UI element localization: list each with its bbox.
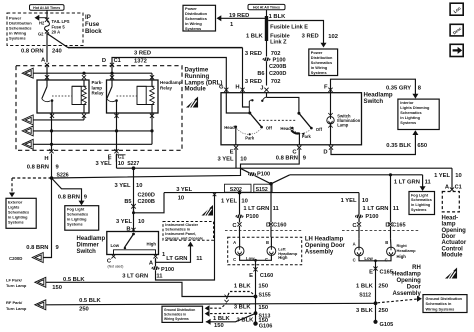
svg-text:P100: P100 xyxy=(273,58,286,64)
label box: Hot At All Times (left) xyxy=(30,5,65,11)
svg-text:P100: P100 xyxy=(365,214,378,220)
svg-text:P100: P100 xyxy=(246,214,259,220)
svg-text:G2: G2 xyxy=(38,31,44,36)
svg-text:3 BLK: 3 BLK xyxy=(356,308,374,314)
svg-text:C: C xyxy=(385,257,388,262)
headlamp relay switch output xyxy=(116,101,118,113)
svg-text:D: D xyxy=(323,149,327,155)
svg-text:High: High xyxy=(397,254,407,259)
ESD warning symbol (DRL) xyxy=(186,97,198,108)
svg-text:E: E xyxy=(249,273,253,279)
svg-text:11: 11 xyxy=(393,206,400,212)
svg-text:1372: 1372 xyxy=(134,58,147,64)
connector P100 (RH C) xyxy=(355,215,363,219)
headlamp relay switch contact xyxy=(115,99,118,102)
wire: diagonal from H1 through P100 to S152 xyxy=(240,168,271,184)
svg-text:3 RED: 3 RED xyxy=(302,34,319,40)
reference box: Ground Distribution Schematics in Wiring Systems (left) xyxy=(162,306,203,322)
wire: right contact down to pin C xyxy=(298,133,300,145)
reference box: Interior Lights Dimming Schematics in Lighting Systems xyxy=(398,99,439,129)
internal bus t3 xyxy=(34,130,153,132)
svg-text:C1: C1 xyxy=(118,155,125,161)
svg-text:650: 650 xyxy=(417,143,427,149)
wire: 3 LT GRN 11 from dimmer A down through P100 and right to S152 riser xyxy=(155,258,157,266)
junction: B riser / H3 branch xyxy=(132,211,135,214)
right Head contact xyxy=(291,127,294,130)
svg-text:3 YEL: 3 YEL xyxy=(116,219,132,225)
wire: RH C pin into assembly xyxy=(358,226,360,239)
svg-text:(Not used): (Not used) xyxy=(108,264,124,268)
wire: 0.5 BLK 150 from LF park lamp to S155 xyxy=(46,282,256,296)
pin C mark (dimmer) xyxy=(111,254,115,258)
svg-text:1 BLK: 1 BLK xyxy=(356,284,374,290)
wire: RH D pin into assembly xyxy=(390,226,392,239)
svg-text:1 BLK: 1 BLK xyxy=(213,316,231,322)
splice S226 xyxy=(50,176,54,180)
svg-text:A: A xyxy=(353,241,356,246)
instrument cluster dashed reference box xyxy=(163,222,214,241)
wire: 0.8 BRN 9 from DRL H down to S226 xyxy=(51,154,53,179)
pin A mark on DRL module edge xyxy=(45,63,49,67)
svg-text:C1: C1 xyxy=(114,58,121,64)
left Head contact xyxy=(235,126,238,129)
pin E mark (LH) xyxy=(253,267,257,271)
wire: coil risers to bus t1 xyxy=(151,73,153,80)
wire: D feed down to headlamp relay xyxy=(111,67,113,81)
internal bus t1 from connector arrow to relay coils and D wire xyxy=(34,72,153,74)
svg-text:3 RED: 3 RED xyxy=(134,51,151,57)
park relay mechanical link (dashed) xyxy=(52,95,72,97)
svg-text:3 RED: 3 RED xyxy=(245,51,262,57)
park relay pin mark top-left xyxy=(45,75,49,79)
park relay pin mark bottom-left xyxy=(50,114,54,118)
svg-text:G: G xyxy=(219,84,224,90)
dashed wire: S226 to exterior lights schematics xyxy=(12,177,52,179)
wire: RH common down to E C165 xyxy=(375,261,377,271)
svg-text:1 BLK: 1 BLK xyxy=(269,14,287,20)
pin H2 mark xyxy=(45,18,49,22)
svg-text:C200B: C200B xyxy=(269,64,286,70)
wire: Head contact down to pin E xyxy=(235,128,237,145)
svg-text:0.35 GRY: 0.35 GRY xyxy=(386,85,411,91)
svg-text:H: H xyxy=(235,84,239,90)
splice S113 xyxy=(254,311,258,315)
junction: park relay coil top on bus xyxy=(82,72,85,75)
svg-text:1 BLK: 1 BLK xyxy=(246,33,264,39)
svg-text:E: E xyxy=(230,149,234,155)
connector P100 (dimmer A) xyxy=(152,266,160,270)
headlamp coil bottom lead down to bus t4 xyxy=(151,105,153,145)
internal bus t4 xyxy=(34,143,153,145)
pin C mark (LH) xyxy=(237,222,241,226)
wire: 1 BLK 250 from RH E to S112 xyxy=(375,271,377,304)
pin H mark xyxy=(240,88,244,92)
svg-text:0.8 ORN: 0.8 ORN xyxy=(21,48,44,54)
pin H mark on DRL bottom edge xyxy=(49,149,53,153)
svg-text:0.8 BRN: 0.8 BRN xyxy=(27,164,49,170)
svg-text:1 LT GRN: 1 LT GRN xyxy=(243,206,269,212)
park coil top lead xyxy=(83,80,85,86)
connector bracket C1 at F xyxy=(116,155,125,162)
svg-text:B6: B6 xyxy=(257,71,264,77)
wire: 3 YEL 10 bus H1 from DRL F across to actuator module A xyxy=(117,167,453,169)
svg-text:J: J xyxy=(260,85,263,91)
svg-text:10: 10 xyxy=(136,183,142,189)
dashed wire: ground distribution to S113 xyxy=(205,311,210,317)
svg-text:Head: Head xyxy=(280,126,291,131)
wire: A feed down to park-lamp relay switch xyxy=(46,67,48,81)
wire: LH C pin into assembly xyxy=(239,226,241,237)
pin E mark xyxy=(234,146,238,150)
LH headlamp opening door assembly dashed outline xyxy=(228,237,302,264)
RH bulb A feed inside box xyxy=(358,239,360,248)
DRL module dashed outline xyxy=(16,66,182,151)
headlamp relay coil (box and winding) xyxy=(137,86,146,104)
svg-text:150: 150 xyxy=(52,285,62,291)
svg-text:S227: S227 xyxy=(127,161,139,167)
svg-text:Hot At All Times: Hot At All Times xyxy=(33,6,60,10)
svg-text:H: H xyxy=(44,156,48,162)
svg-text:11: 11 xyxy=(196,256,203,262)
headlamp opening door actuator control module dashed outline xyxy=(442,192,459,212)
park relay pin mark bottom-right xyxy=(82,114,86,118)
RH bulb common bus xyxy=(359,256,391,261)
wire: stub from hot box xyxy=(266,10,268,16)
pin D mark xyxy=(329,146,333,150)
wire: H3 right end down to RH door pin C xyxy=(358,193,360,223)
svg-text:C200B: C200B xyxy=(138,199,155,205)
connector P100 (fusible link branch) xyxy=(263,57,271,61)
headlamp relay pin mark bottom-left xyxy=(114,114,118,118)
wire: 3 RED 1372 from DRL pin D up and over to headlamp switch G xyxy=(112,58,226,93)
wire: 3 RED 102 branch to power distribution xyxy=(268,21,323,45)
svg-text:3 RED: 3 RED xyxy=(245,79,262,85)
connector arrow 4 (DRL internal) xyxy=(22,139,33,149)
wire: H2 end down to fog box xyxy=(422,175,424,189)
LH bulb B feed inside box xyxy=(270,237,272,246)
svg-text:F: F xyxy=(324,84,328,90)
fuse TAIL LPS Fuse 5 (element symbol) xyxy=(45,22,50,31)
svg-text:10: 10 xyxy=(241,198,247,204)
svg-text:LT GRN: LT GRN xyxy=(166,256,187,262)
svg-text:11: 11 xyxy=(273,206,280,212)
pin E mark (RH) xyxy=(373,267,377,271)
svg-text:0.35 BLK: 0.35 BLK xyxy=(386,143,412,149)
label box: Hot At All Times (right) xyxy=(248,4,285,9)
svg-text:C: C xyxy=(353,257,356,262)
svg-text:0.8 BRN: 0.8 BRN xyxy=(58,194,80,200)
svg-text:F: F xyxy=(108,154,112,160)
svg-text:C160: C160 xyxy=(273,223,286,229)
svg-text:10: 10 xyxy=(455,173,461,179)
wire: 3 BLK 250 from S112 to ground G105 xyxy=(375,303,377,322)
pin C mark xyxy=(297,146,301,150)
svg-text:0.5 BLK: 0.5 BLK xyxy=(79,298,101,304)
reference box: Power Distribution Schematics in Wiring Systems (102) xyxy=(309,49,338,76)
park relay pin mark top-right xyxy=(82,75,86,79)
ESD warning symbol (actuator module) xyxy=(445,268,457,279)
reference box: Ground Distribution Schematics in Wiring Systems (right) xyxy=(423,295,467,313)
svg-text:C160: C160 xyxy=(260,273,273,279)
S202 label box xyxy=(225,184,252,192)
svg-text:3 YEL: 3 YEL xyxy=(176,187,192,193)
splice S202 xyxy=(238,191,242,195)
headlamp relay switch blade xyxy=(111,80,113,87)
svg-text:Off: Off xyxy=(266,126,273,131)
switch illumination lamp on F-D leg xyxy=(330,93,332,117)
pin A mark (dimmer) xyxy=(153,254,157,258)
wire: 3 RED bus drop to headlamp switch pin H xyxy=(242,48,244,93)
pin D mark (RH) xyxy=(388,222,392,226)
wire: 3 YEL 10 from S227 down to dimmer switch B xyxy=(133,168,135,231)
wire: E riser from headlamp switch to H1 xyxy=(235,149,237,168)
reference box: Exterior Lights Schematics in Lighting Systems xyxy=(6,198,36,228)
svg-text:E: E xyxy=(369,270,373,276)
wire: 0.35 BLK 650 from switch D to interior lights dimming xyxy=(331,133,415,155)
svg-text:S152: S152 xyxy=(256,187,268,193)
reference box: Fog Light Schematics in Lighting Systems (left) xyxy=(65,206,99,231)
svg-text:Low: Low xyxy=(111,243,120,248)
svg-text:3 YEL: 3 YEL xyxy=(217,156,233,162)
svg-text:Low: Low xyxy=(364,256,373,261)
svg-text:P100: P100 xyxy=(161,267,174,273)
IP Fuse Block dashed outline xyxy=(7,13,83,46)
svg-text:P100: P100 xyxy=(257,172,270,178)
wire: 3 RED bus across top xyxy=(68,47,243,49)
ground G105 xyxy=(373,320,377,324)
pin C mark (RH) xyxy=(357,222,361,226)
switch interior: J feed to right wiper pivot xyxy=(267,97,299,112)
svg-text:C165: C165 xyxy=(392,223,405,229)
LH bulb common bus xyxy=(240,255,272,260)
internal bus t2 to park coil bottom xyxy=(34,119,85,121)
wire: fuse output diagonal to 3 RED bus xyxy=(47,34,68,48)
wire: 19 RED 1 to power distribution xyxy=(220,17,267,19)
pin A mark (actuator module) xyxy=(450,187,454,191)
svg-text:C200D: C200D xyxy=(9,256,22,261)
svg-text:C165: C165 xyxy=(380,270,393,276)
S152 label box xyxy=(254,184,272,192)
LH low beam bulb xyxy=(235,247,244,256)
dimmer Low contact xyxy=(124,247,126,249)
svg-text:Off: Off xyxy=(316,127,323,132)
switch interior: DRL cutout contacts between H and J xyxy=(248,101,250,113)
svg-text:1 LT GRN: 1 LT GRN xyxy=(394,179,420,185)
svg-text:Park: Park xyxy=(245,136,255,141)
svg-text:150: 150 xyxy=(214,323,224,329)
connector arrow LF park/turn lamp xyxy=(35,277,46,287)
wire: 0.8 BRN 9 from S226 to fog light schematics xyxy=(52,178,82,203)
svg-text:C1: C1 xyxy=(455,184,462,190)
svg-text:0.8 BRN: 0.8 BRN xyxy=(276,155,298,161)
svg-text:150: 150 xyxy=(258,305,268,311)
splice S152 xyxy=(269,182,273,186)
connector arrow RF park/turn lamp xyxy=(35,300,46,310)
wire: 3 RED 702 below fusible link xyxy=(266,41,268,57)
left Park contact xyxy=(249,133,251,135)
headlamp relay box xyxy=(107,80,159,113)
svg-text:11: 11 xyxy=(425,179,432,185)
park relay switch contact xyxy=(51,99,54,102)
svg-text:A: A xyxy=(233,240,236,245)
reference box: Fog Light Schematics in Lighting Systems (right) xyxy=(409,192,435,215)
wire: 1 BLK 150 from ground distribution to S113 xyxy=(206,319,211,325)
nav button LOC xyxy=(450,3,463,15)
left wiper tip at Off xyxy=(260,126,263,129)
dimmer wiper blade xyxy=(132,233,135,236)
svg-text:0.8 BRN: 0.8 BRN xyxy=(26,245,48,251)
RH bulb B feed inside box xyxy=(390,239,393,248)
LH bulb A feed inside box xyxy=(239,237,241,246)
wire: 3 BLK 150 from S113 to ground G106 xyxy=(255,313,257,323)
splice S227 xyxy=(132,166,136,170)
right Park contact xyxy=(302,133,304,135)
ESD warning symbol (instrument cluster) xyxy=(202,205,214,216)
connector arrow 1 (DRL internal, left) xyxy=(22,68,33,78)
headlamp relay pin mark top-left xyxy=(110,75,114,79)
switch mechanical link (dashed) xyxy=(259,119,296,121)
arrow from fuse to power distribution text xyxy=(38,17,47,19)
switch interior: J stub xyxy=(266,93,268,98)
svg-text:C: C xyxy=(265,257,268,262)
svg-text:D: D xyxy=(102,58,106,64)
junction t3 / H riser xyxy=(50,129,53,132)
connector P100 (center) xyxy=(248,172,256,176)
svg-text:702: 702 xyxy=(271,51,281,57)
wire: 0.5 BLK 250 from RF park lamp to S112 xyxy=(46,303,376,305)
connector arrow 2 (DRL internal) xyxy=(22,115,33,125)
svg-text:S155: S155 xyxy=(259,292,271,298)
svg-text:3 LT GRN: 3 LT GRN xyxy=(122,274,148,280)
reference box: Power Distribution Schematics in Wiring Systems (19 RED) xyxy=(183,5,216,31)
svg-text:3 YEL: 3 YEL xyxy=(114,183,130,189)
wire: 1 BLK 150 from LH E to S155 xyxy=(255,271,257,297)
svg-text:1 YEL: 1 YEL xyxy=(434,173,450,179)
headlamp relay pin mark top-right xyxy=(150,75,154,79)
connector P100 (LH C) xyxy=(236,215,244,219)
in-line connector C200 mark xyxy=(131,204,136,209)
wire: 1 LT GRN 11 from dimmer A to instrument cluster xyxy=(156,244,191,262)
junction t3 / coil lead xyxy=(150,129,153,132)
switch interior: left wiper pivot and blade xyxy=(248,112,251,115)
svg-text:Head: Head xyxy=(224,125,235,130)
svg-text:10: 10 xyxy=(138,219,144,225)
svg-text:Fusible Link E: Fusible Link E xyxy=(270,25,308,31)
connector arrow 3 (DRL internal) xyxy=(22,126,33,136)
headlamp switch box xyxy=(221,93,362,145)
svg-text:102: 102 xyxy=(328,34,338,40)
wire: park feed from S226 right to headlamp switch C (0.8 BRN) xyxy=(52,149,300,178)
svg-text:H2: H2 xyxy=(39,21,45,26)
svg-text:10: 10 xyxy=(362,198,368,204)
svg-text:Hot At All Times: Hot At All Times xyxy=(253,6,280,10)
wire: diagonal S152 up to LT GRN bus H2 xyxy=(271,175,290,184)
svg-text:G106: G106 xyxy=(259,323,273,329)
svg-text:0.5 BLK: 0.5 BLK xyxy=(63,277,85,283)
svg-text:10: 10 xyxy=(178,196,184,202)
junction t4 / H riser xyxy=(50,143,53,146)
junction mark where LT GRN riser meets bus xyxy=(213,193,217,197)
right wiper tip at Off xyxy=(310,127,313,130)
wire: main 1 YEL bus H3 xyxy=(164,192,359,194)
svg-text:3 BLK: 3 BLK xyxy=(234,304,252,310)
LH high beam bulb xyxy=(267,247,276,256)
svg-text:250: 250 xyxy=(378,308,388,314)
nav button next-arrow xyxy=(450,44,463,56)
svg-text:1 YEL: 1 YEL xyxy=(341,198,357,204)
connector arrow C200D xyxy=(32,253,43,263)
pin D mark (LH) xyxy=(269,222,273,226)
junction t3 / F riser xyxy=(115,129,118,132)
svg-text:1 YEL: 1 YEL xyxy=(221,198,237,204)
ground G106 xyxy=(253,321,257,325)
svg-text:19 RED: 19 RED xyxy=(229,13,249,19)
wire: 3 YEL 10 branch from C200 connector to main bus H3 xyxy=(134,193,165,213)
pin F mark on DRL bottom edge xyxy=(114,149,118,153)
svg-text:C: C xyxy=(233,257,236,262)
park coil bottom lead xyxy=(83,105,85,114)
wire: 0.8 ORN 240 from fuse down to node A xyxy=(46,33,48,63)
wire: S202 drop to LH door pin C xyxy=(239,193,241,223)
wire: 0.35 GRY 8 from switch F to interior lights dimming xyxy=(331,79,416,96)
svg-text:1 BLK: 1 BLK xyxy=(234,283,252,289)
svg-text:1 LT GRN: 1 LT GRN xyxy=(363,206,389,212)
svg-text:B: B xyxy=(266,240,269,245)
wire: through C200 to headlamp switch J xyxy=(266,61,268,85)
splice S155 xyxy=(254,295,258,299)
dashed wire: S112 to ground distribution (right) xyxy=(378,299,419,303)
svg-text:250: 250 xyxy=(79,307,89,313)
dashed wire: ground distribution to S155 xyxy=(205,305,210,311)
svg-text:702: 702 xyxy=(271,79,281,85)
svg-text:3 YEL: 3 YEL xyxy=(95,161,111,167)
pin B mark (dimmer) xyxy=(131,228,135,232)
wire: 3 BLK 150 from S155 to S113 xyxy=(255,297,257,314)
svg-text:G105: G105 xyxy=(380,322,394,328)
wire: 0.8 BRN 9 from S226 down to C200D connector xyxy=(44,178,52,258)
nav button DESC xyxy=(450,24,463,36)
splice S112 xyxy=(374,301,378,305)
headlamp coil top lead xyxy=(151,80,153,86)
wire: H1 right end down to actuator module pin A xyxy=(451,168,453,189)
svg-text:S112: S112 xyxy=(359,293,371,299)
wire: LH D pin into assembly xyxy=(270,226,272,237)
wire: hot feed into fuse H2 xyxy=(46,10,48,19)
RH high beam bulb xyxy=(387,247,396,256)
wire: F riser to H1 xyxy=(116,154,118,169)
svg-text:11: 11 xyxy=(156,274,163,280)
svg-text:B5: B5 xyxy=(124,199,131,205)
fusible link E / Z thick conductor xyxy=(265,16,268,41)
park relay coil (box and winding) xyxy=(72,86,81,104)
dashed edge above LH assembly xyxy=(225,230,302,232)
svg-text:10: 10 xyxy=(118,161,124,167)
switch interior: G branch to pivot xyxy=(226,93,250,113)
svg-text:240: 240 xyxy=(52,48,62,54)
RH low beam bulb xyxy=(355,247,364,256)
svg-text:150: 150 xyxy=(258,284,268,290)
svg-text:250: 250 xyxy=(378,284,388,290)
wire: H2 drop to RH door pin D xyxy=(390,175,392,223)
dimmer contact bar xyxy=(114,250,156,255)
park-lamp relay box xyxy=(37,80,89,113)
park relay switch blade xyxy=(46,80,48,87)
headlamp dimmer switch box xyxy=(107,232,159,255)
svg-text:10: 10 xyxy=(240,156,246,162)
arrowhead into interior lights dimming box xyxy=(412,94,418,99)
junction: D wire on bus xyxy=(110,72,113,75)
svg-text:C200D: C200D xyxy=(138,192,155,198)
